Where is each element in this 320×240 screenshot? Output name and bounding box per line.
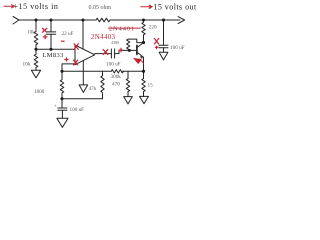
svg-text:22 uF: 22 uF — [62, 31, 74, 37]
svg-text:10k: 10k — [23, 62, 31, 68]
resistor 220 — [142, 20, 145, 43]
wire + input — [62, 64, 75, 71]
capacitor 100uF coupling — [111, 49, 114, 58]
svg-text:10k: 10k — [27, 30, 35, 36]
red X on 22uF — [42, 28, 47, 33]
wire cap to base — [115, 50, 137, 53]
wire divider node to op-amp input — [36, 48, 75, 50]
ground op-amp — [79, 85, 88, 93]
grey value labels — [23, 5, 185, 113]
wire 22uF to node — [50, 34, 52, 49]
resistor 10k lower — [34, 49, 38, 70]
resistor 390 — [127, 39, 130, 51]
resistor 300k horizontal — [111, 70, 123, 73]
node +15 volts out arrow — [178, 17, 185, 24]
capacitor 22uF — [46, 32, 55, 34]
op-amp U1 LM833 — [75, 45, 95, 65]
wire drop to 22uF — [50, 20, 52, 32]
red + new coupling cap — [119, 48, 124, 53]
black labels — [14, 2, 197, 59]
transistor Q1 base bar — [136, 45, 138, 54]
junction dots — [34, 18, 165, 100]
red + new output cap — [155, 46, 158, 50]
red X op-amp inverting — [74, 43, 79, 49]
svg-text:0.05 ohm: 0.05 ohm — [89, 5, 112, 11]
red X output cap — [154, 38, 159, 44]
red annotations — [4, 4, 160, 65]
wire op-amp V- to ground — [82, 61, 84, 85]
capacitor 100uF output — [159, 45, 168, 52]
svg-text:2N4403: 2N4403 — [91, 33, 116, 41]
capacitor 100uF lower left — [58, 99, 67, 119]
emitter arrow original — [141, 57, 143, 59]
ground lower left — [57, 118, 68, 127]
red + new on 22uF — [43, 35, 48, 40]
svg-text:100 uF: 100 uF — [70, 107, 85, 113]
node +15 volts in connector — [13, 17, 19, 25]
ground output cap — [159, 52, 168, 60]
wire feedback lower — [62, 70, 111, 72]
resistor 1000 — [60, 71, 64, 98]
ground emitter resistor — [140, 96, 149, 103]
wire top rail right — [110, 19, 180, 21]
ground divider — [31, 70, 40, 78]
svg-text:LM833: LM833 — [43, 52, 64, 59]
red text labels — [91, 26, 135, 41]
resistor 47k — [101, 71, 104, 98]
svg-text:+: + — [54, 104, 57, 109]
transistor emitter lead — [137, 52, 143, 71]
red + op-amp — [64, 57, 68, 61]
svg-text:2N4401: 2N4401 — [109, 26, 135, 33]
svg-text:47k: 47k — [89, 86, 97, 92]
red strike through 2N4401 — [108, 27, 141, 29]
svg-text:15: 15 — [148, 82, 154, 88]
svg-text:+15 volts in: +15 volts in — [14, 2, 59, 11]
red arrow output — [141, 5, 153, 9]
resistor 470 (shunt) — [126, 71, 129, 96]
resistor 0.05 ohm — [96, 18, 110, 22]
red minus op-amp — [61, 40, 65, 42]
wire output cap branch — [163, 20, 165, 45]
svg-text:+15 volts out: +15 volts out — [149, 3, 197, 12]
svg-text:470: 470 — [112, 81, 120, 87]
red emitter arrow annotation — [134, 58, 142, 64]
svg-text:100 uF: 100 uF — [106, 62, 121, 68]
wire op-amp output — [95, 53, 112, 55]
wire 47k to cap node — [62, 98, 103, 100]
resistor 15 (emitter) — [142, 71, 145, 96]
transistor collector lead — [137, 43, 143, 48]
ground shunt resistor — [124, 97, 133, 104]
svg-text:220: 220 — [149, 25, 157, 31]
red arrow input — [4, 4, 15, 8]
red X op-amp non-inverting — [73, 60, 78, 66]
wire op-amp V+ — [82, 20, 84, 49]
resistor 10k upper — [34, 32, 38, 45]
wire drop to R divider — [35, 20, 37, 32]
red X coupling cap — [103, 49, 108, 55]
svg-text:100 uF: 100 uF — [170, 45, 185, 51]
wire to divider node — [35, 45, 37, 50]
wire top rail left — [19, 19, 96, 21]
wire 390 top to node A — [128, 39, 143, 43]
svg-text:300k: 300k — [111, 74, 122, 80]
wire feedback to emitter node — [123, 70, 144, 72]
svg-text:1000: 1000 — [34, 89, 45, 95]
